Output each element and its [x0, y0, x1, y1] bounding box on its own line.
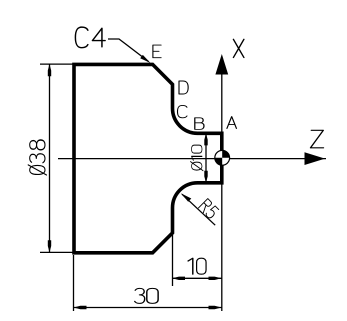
dim Ø10 arrow top: [204, 133, 207, 145]
dim Ø38 arrow bottom: [48, 240, 51, 252]
dim 30 arrow left: [74, 306, 87, 309]
dim Ø38 extension line top: [40, 63, 73, 65]
chamfer label C4 text: [75, 27, 105, 48]
dim Ø10 dimension line: [205, 133, 207, 183]
dim 10 arrow left: [172, 277, 185, 280]
radius leader line: [182, 194, 215, 225]
chamfer leader arrowhead: [140, 55, 150, 63]
dim 10 dimension line: [173, 277, 222, 279]
origin marker: [215, 150, 230, 165]
dim 10 extension line left: [172, 233, 174, 286]
dim Ø10 arrow bottom: [204, 171, 207, 183]
radius label R5 text rotated 45: [198, 199, 219, 220]
axis label Z: [311, 130, 324, 148]
dim 30 text: [135, 288, 158, 303]
point label A: [227, 117, 237, 129]
X axis arrowhead: [215, 54, 228, 75]
axis label X: [233, 39, 244, 57]
dim Ø38 extension line bottom: [40, 251, 73, 253]
dim 30 arrow right: [209, 306, 222, 309]
dim 30 dimension line: [74, 307, 222, 309]
point label D: [179, 81, 188, 94]
point label C: [178, 105, 187, 117]
Z axis arrowhead: [305, 152, 326, 165]
chamfer leader line: [108, 39, 149, 62]
dim 10 text: [188, 258, 206, 274]
point label B: [195, 118, 204, 130]
point label E: [153, 45, 161, 58]
dim Ø38 text: [28, 140, 46, 175]
dim 10 arrow right: [209, 277, 222, 280]
X axis: [221, 58, 223, 311]
centerline / Z axis: [58, 158, 326, 160]
dim Ø38 dimension line: [49, 64, 51, 252]
radius leader arrowhead: [181, 193, 192, 202]
part outline: [74, 64, 222, 252]
dim Ø10 text: [190, 145, 203, 170]
dim Ø38 arrow top: [48, 64, 51, 76]
dim 30 extension line left: [73, 255, 75, 311]
